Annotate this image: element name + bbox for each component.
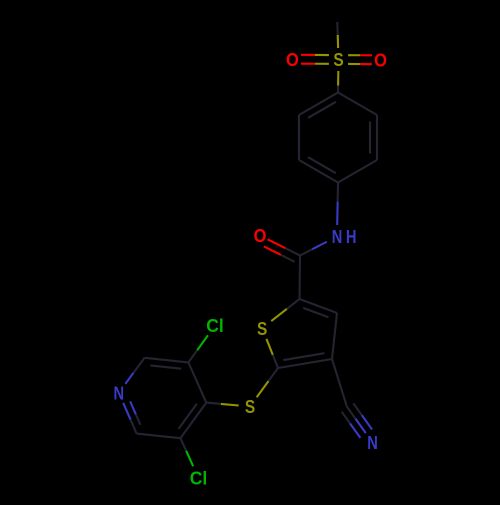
double bond S=O left: [315, 63, 329, 65]
svg-text:Cl: Cl: [190, 468, 208, 489]
thiophene double bond C2=C3: [300, 299, 338, 313]
svg-text:S: S: [333, 49, 343, 70]
pyridine bond C6-C5: [137, 434, 181, 439]
pyridine double bond C5=C4: [180, 403, 206, 439]
thiophene bond C3-C4: [332, 313, 337, 359]
pyridine bond C4-C3: [188, 362, 206, 402]
double bond S=O right: [348, 54, 360, 56]
bond N-C amide: [312, 242, 327, 250]
svg-text:N: N: [367, 432, 378, 453]
bond C3-Cl top: [188, 350, 197, 362]
bond C4-N aniline: [337, 183, 339, 202]
svg-text:O: O: [374, 49, 387, 70]
svg-text:O: O: [254, 225, 267, 246]
benzene bond C5-C6: [298, 115, 300, 160]
svg-text:Cl: Cl: [206, 315, 224, 336]
benzene double bond C4=C5: [299, 160, 338, 183]
thiophene bond C5-S1: [273, 355, 278, 368]
triple bond C#N nitrile: [347, 407, 356, 419]
bond C(=O)-C2 thiophene: [298, 256, 301, 300]
thiophene double bond C4=C5: [278, 359, 332, 368]
pyridine bond C2-N1: [133, 358, 144, 373]
benzene double bond C6=C1: [299, 93, 338, 116]
pyridine double bond N1=C6: [123, 403, 130, 420]
benzene bond C1-C2: [338, 93, 377, 116]
bond CH3-S methyl: [336, 22, 339, 35]
bond C5-Cl bottom: [180, 438, 186, 451]
svg-text:O: O: [286, 49, 299, 70]
benzene bond C3-C4: [338, 160, 377, 183]
double bond C=O carbonyl: [285, 248, 300, 255]
svg-text:S: S: [245, 396, 255, 417]
bond C5-S2 sulfide: [268, 368, 278, 381]
svg-text:H: H: [346, 226, 357, 247]
svg-text:N: N: [114, 382, 125, 403]
benzene double bond C2=C3: [376, 115, 378, 160]
svg-text:N: N: [332, 226, 343, 247]
bond C4-C8 to nitrile: [332, 359, 347, 407]
thiophene bond C2-S1: [287, 299, 300, 309]
svg-text:S: S: [257, 318, 267, 339]
bond S-C1 sulfonyl to benzene: [337, 71, 339, 86]
bond S2-C4 pyridine: [221, 404, 239, 406]
pyridine double bond C3=C2: [145, 358, 189, 363]
